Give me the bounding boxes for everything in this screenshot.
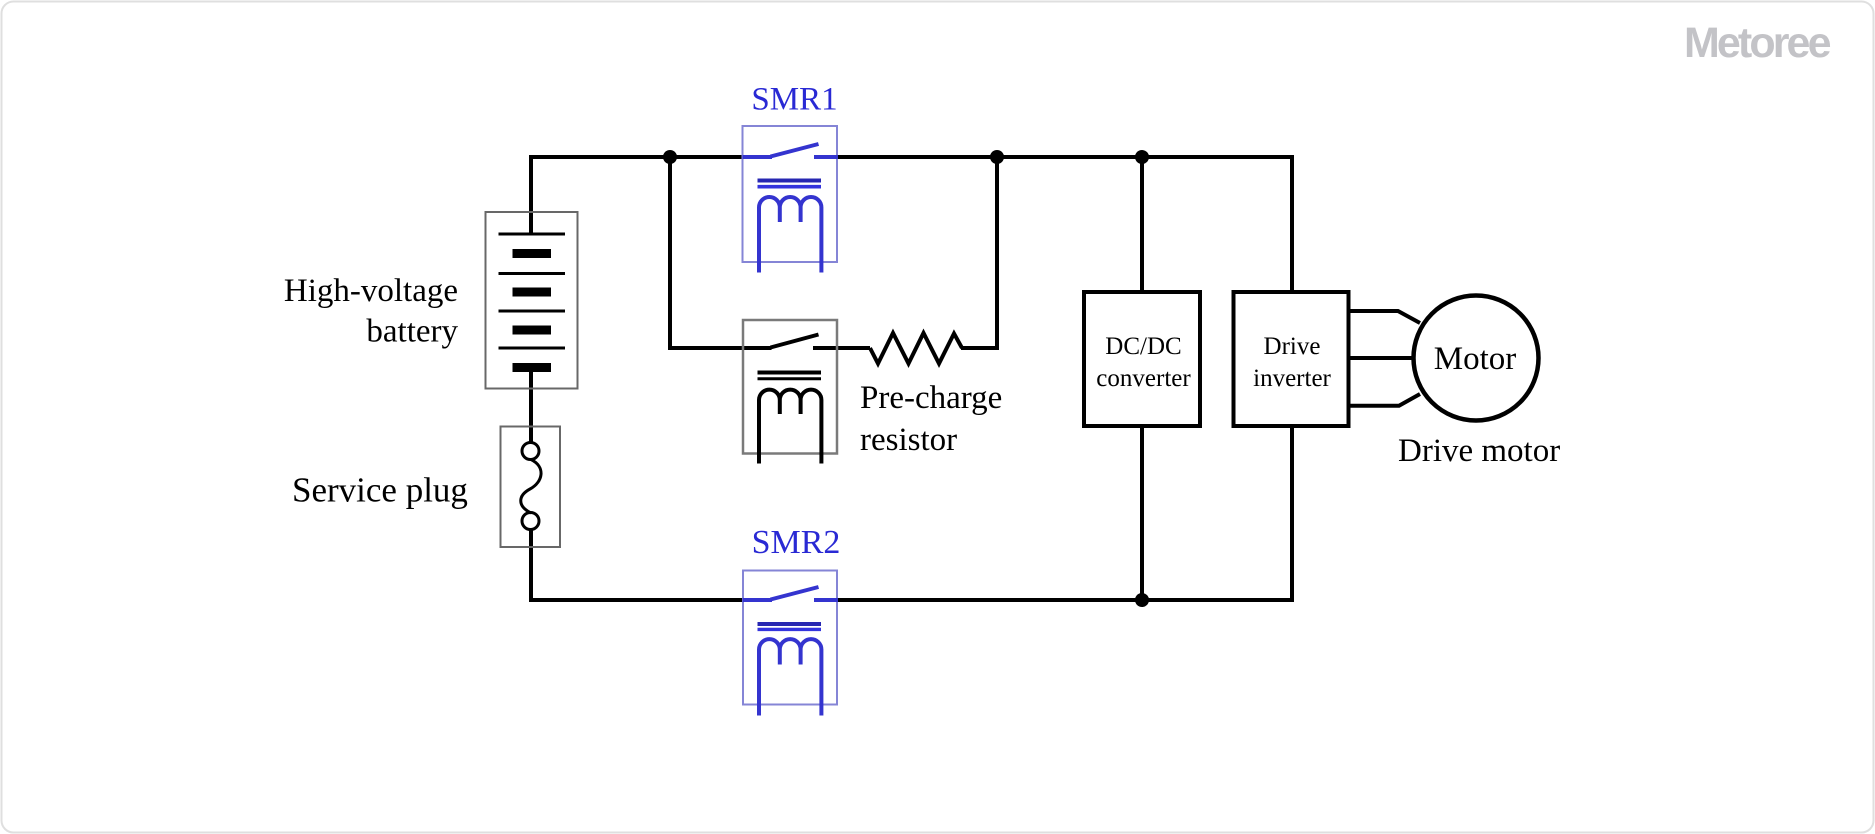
wire: battery - terminal down to service plug	[529, 368, 533, 443]
relay SMR2 switch blade	[771, 587, 819, 600]
svg-text:SMR2: SMR2	[752, 524, 841, 561]
wire: pre-charge relay contact to resistor	[813, 346, 870, 350]
DC/DC converter box	[1084, 292, 1200, 426]
relay SMR2 core bars	[758, 624, 822, 629]
svg-text:Motor: Motor	[1434, 341, 1517, 377]
wire: service plug down and along bottom bus to SMR2	[531, 530, 744, 600]
wire: resistor up to node B on top bus	[961, 157, 997, 348]
wire: bottom bus from SMR2 to drive inverter bottom	[837, 426, 1292, 600]
relay SMR2 box	[743, 571, 837, 705]
svg-text:Drive: Drive	[1264, 333, 1321, 360]
wire: DC/DC converter bottom down to node D	[1140, 426, 1144, 600]
drive inverter box	[1234, 292, 1349, 426]
svg-text:Pre-charge: Pre-charge	[860, 380, 1002, 416]
resistor: pre-charge resistor zigzag	[870, 333, 962, 364]
node C junction dot on top bus	[1135, 150, 1149, 164]
high-voltage battery outline box	[486, 212, 578, 389]
relay SMR2 switch pivot stub	[743, 598, 773, 602]
relay SMR1 switch pivot stub	[743, 155, 773, 159]
svg-text:battery: battery	[366, 314, 458, 350]
relay SMR1 core bars	[758, 181, 822, 187]
relay SMR1 switch contact stub	[814, 155, 838, 159]
node B junction dot on top bus	[990, 150, 1004, 164]
motor phase wire U	[1348, 311, 1420, 323]
wire: battery + terminal up and along top bus to SMR1	[531, 157, 744, 233]
svg-text:Service plug: Service plug	[292, 471, 468, 510]
service plug S-link	[521, 460, 541, 514]
motor M1 circle	[1414, 296, 1539, 421]
pre-charge relay switch blade	[771, 335, 819, 348]
node D junction dot on bottom bus	[1135, 593, 1149, 607]
motor phase wire V	[1348, 356, 1413, 360]
relay SMR2 switch contact stub	[814, 598, 838, 602]
motor phase wire W	[1348, 394, 1420, 406]
service plug bottom contact circle	[522, 513, 539, 530]
wire: top bus from SMR1 to drive-inverter branch corner, down to inverter top	[837, 157, 1292, 292]
relay SMR1 switch blade	[771, 144, 819, 157]
pre-charge relay core bars	[758, 373, 822, 379]
svg-text:converter: converter	[1096, 365, 1191, 392]
service plug outline box	[501, 427, 561, 548]
svg-text:Drive motor: Drive motor	[1398, 433, 1560, 469]
svg-text:Metoree: Metoree	[1684, 19, 1831, 67]
node A junction dot on top bus	[663, 150, 677, 164]
pre-charge relay box	[743, 320, 837, 454]
svg-text:SMR1: SMR1	[751, 82, 837, 118]
wire: node A down to pre-charge relay	[670, 157, 772, 348]
relay SMR1 coil	[759, 197, 821, 273]
relay SMR1 box	[743, 126, 838, 262]
svg-text:inverter: inverter	[1253, 365, 1331, 392]
relay SMR2 coil	[759, 639, 821, 715]
svg-text:High-voltage: High-voltage	[284, 273, 458, 309]
wire: node C down to DC/DC converter top	[1140, 157, 1144, 292]
pre-charge relay coil	[759, 390, 821, 464]
svg-text:resistor: resistor	[860, 422, 957, 458]
svg-text:DC/DC: DC/DC	[1105, 333, 1181, 360]
battery cell plates	[499, 234, 566, 368]
service plug top contact circle	[522, 443, 539, 460]
